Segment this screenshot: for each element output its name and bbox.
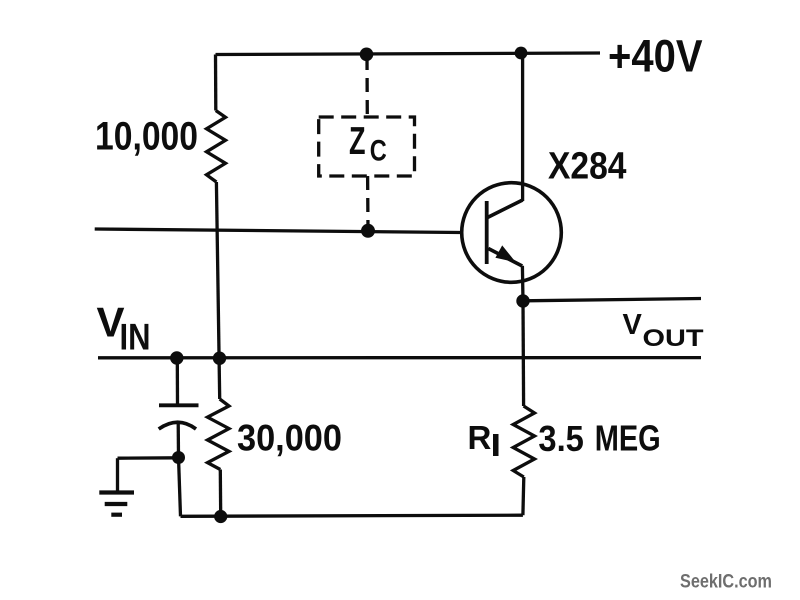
- resistor R1 zigzag: [513, 406, 534, 477]
- wire: dashed lead from rail node to Zc box: [365, 56, 369, 117]
- transistor X284 emitter lead diagonal: [488, 249, 522, 267]
- wire: capacitor node to bottom rail: [179, 457, 181, 516]
- svg-text:30,000: 30,000: [237, 417, 342, 459]
- wire: divider vertical, rail to 10,000 resistor: [214, 55, 218, 111]
- capacitor curved plate: [159, 422, 196, 429]
- wire: emitter vertical to output node: [521, 266, 525, 301]
- ground symbol bar 3: [111, 513, 122, 517]
- wire: R1 bottom lead to bottom rail: [521, 477, 525, 515]
- wire: output horizontal to VOUT: [523, 299, 701, 301]
- svg-text:Z: Z: [349, 120, 366, 163]
- wire: VIN horizontal: [98, 356, 701, 359]
- transistor X284 base bar: [485, 201, 489, 264]
- wire: ground branch horizontal: [118, 456, 179, 460]
- label: R1 subscript 1: [493, 434, 499, 456]
- wire: base input horizontal: [95, 229, 461, 233]
- transistor X284 circle: [462, 183, 562, 283]
- svg-text:SeekIC.com: SeekIC.com: [680, 572, 772, 593]
- svg-text:MEG: MEG: [595, 418, 661, 459]
- junction: capacitor / ground branch: [172, 451, 185, 464]
- wire: capacitor top lead: [176, 358, 179, 404]
- svg-text:R: R: [468, 419, 492, 456]
- wire: bottom rail: [181, 515, 523, 516]
- svg-text:10,000: 10,000: [95, 115, 198, 159]
- junction: top rail / collector: [515, 47, 528, 60]
- wire: collector vertical to +40V rail: [521, 53, 524, 201]
- junction: base wire / Zc lead: [361, 224, 375, 238]
- ground symbol bar 1: [99, 490, 134, 494]
- ground symbol bar 2: [105, 502, 128, 506]
- svg-text:C: C: [370, 135, 387, 168]
- svg-text:IN: IN: [120, 317, 151, 358]
- svg-text:X284: X284: [548, 146, 627, 188]
- junction: VIN / capacitor branch: [170, 351, 183, 364]
- capacitor top plate: [159, 403, 199, 407]
- wire: dashed lead from Zc box to base wire: [366, 176, 370, 229]
- wire: capacitor bottom lead: [177, 422, 181, 457]
- svg-text:3.5: 3.5: [538, 418, 584, 459]
- transistor X284 emitter arrowhead: [495, 245, 515, 262]
- junction: top rail / Zc: [360, 48, 374, 62]
- svg-text:OUT: OUT: [643, 325, 704, 352]
- svg-text:+40V: +40V: [608, 30, 703, 81]
- junction: bottom rail / 30,000: [214, 510, 227, 523]
- svg-text:V: V: [623, 309, 643, 341]
- impedance Zc dashed box: [319, 117, 415, 176]
- wire: divider vertical, 10,000 to 30,000: [216, 182, 219, 399]
- wire: R1 top lead from output node: [521, 301, 525, 406]
- wire: divider vertical, 30,000 to bottom rail: [219, 470, 223, 517]
- wire: +40V top supply rail: [216, 53, 601, 55]
- resistor 10,000 zigzag: [207, 111, 226, 183]
- junction: emitter / output / R1: [516, 294, 529, 307]
- resistor 30,000 zigzag: [208, 399, 230, 470]
- wire: ground branch vertical: [116, 458, 119, 492]
- junction: VIN / divider: [213, 352, 226, 365]
- transistor X284 collector lead diagonal: [488, 200, 523, 218]
